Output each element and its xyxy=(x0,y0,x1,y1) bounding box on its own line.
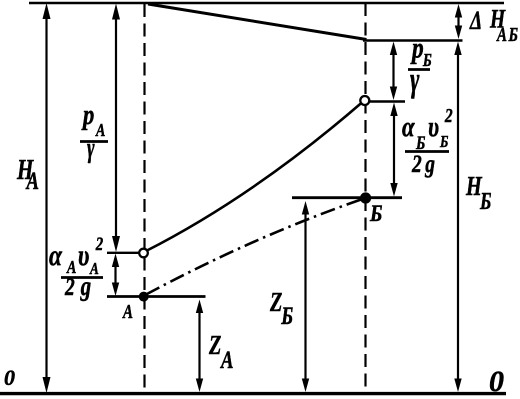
dashed section line A xyxy=(143,4,145,391)
svg-text:Б: Б xyxy=(280,301,293,329)
svg-text:0: 0 xyxy=(4,365,15,390)
energy line (sloping from section A to section B) xyxy=(148,4,367,40)
svg-text:g: g xyxy=(80,272,91,302)
label H_B xyxy=(465,172,491,214)
svg-text:2: 2 xyxy=(95,233,104,254)
svg-text:g: g xyxy=(424,150,435,178)
label alpha_A v_A^2 / 2g (fraction) xyxy=(49,233,104,301)
label A (point) xyxy=(122,300,133,323)
dimension line H_B xyxy=(454,42,461,393)
svg-text:2: 2 xyxy=(64,273,75,301)
node: piezometric point at section A (open circle) xyxy=(139,249,148,258)
datum line 0-0 xyxy=(0,392,506,395)
svg-text:A: A xyxy=(25,166,39,194)
piezometer tick at section A xyxy=(107,252,148,254)
svg-text:υ: υ xyxy=(428,110,439,142)
svg-text:Б: Б xyxy=(439,133,449,152)
dashed section line B xyxy=(364,3,366,391)
label p_B / gamma (fraction) xyxy=(408,31,432,100)
label B (point) xyxy=(369,201,382,227)
svg-text:γ: γ xyxy=(87,133,95,164)
svg-text:АБ: АБ xyxy=(496,23,519,46)
dimension line p_A/gamma xyxy=(112,4,120,253)
node: point A (filled dot) xyxy=(139,292,149,302)
svg-text:0: 0 xyxy=(489,365,504,398)
svg-text:A: A xyxy=(122,300,133,323)
energy level line at section B xyxy=(363,39,463,42)
svg-text:Б: Б xyxy=(422,52,432,71)
level line at point A xyxy=(107,295,206,298)
piezometer tick at section B xyxy=(369,100,405,102)
label p_A / gamma (fraction) xyxy=(80,98,108,164)
dimension line z_A xyxy=(196,300,203,393)
piezometric curve from A to B xyxy=(146,102,363,251)
pipe axis dash-dot line from A to B xyxy=(146,200,361,295)
svg-text:Z: Z xyxy=(269,288,282,317)
label H_A xyxy=(16,155,39,194)
label z_A xyxy=(208,331,233,373)
dimension arrows alpha_B v_B^2/2g xyxy=(390,103,397,197)
svg-text:A: A xyxy=(219,345,233,373)
svg-text:2: 2 xyxy=(411,150,422,178)
svg-text:υ: υ xyxy=(78,238,89,271)
svg-text:Б: Б xyxy=(369,201,382,227)
dimension line H_A xyxy=(43,3,51,393)
level line at point B xyxy=(292,196,402,199)
svg-text:A: A xyxy=(95,122,105,141)
label delta H_AB xyxy=(469,5,519,46)
svg-text:p: p xyxy=(410,31,423,64)
node: point B (filled dot) xyxy=(360,192,371,203)
svg-text:Δ: Δ xyxy=(469,6,482,34)
top reference line (initial energy level) xyxy=(29,2,504,5)
label alpha_B v_B^2 / 2g (fraction) xyxy=(402,104,453,177)
svg-text:α: α xyxy=(402,110,415,142)
label 0 (bottom left) xyxy=(4,365,15,390)
svg-text:Б: Б xyxy=(479,188,491,215)
dimension line p_B/gamma xyxy=(390,42,397,101)
svg-text:Z: Z xyxy=(208,331,221,360)
label 0 (bottom right) xyxy=(489,365,504,398)
svg-text:γ: γ xyxy=(410,61,420,99)
dimension line z_B xyxy=(302,201,309,392)
svg-text:α: α xyxy=(49,238,63,271)
dimension line delta H_AB xyxy=(455,4,462,39)
node: piezometric point at section B (open circle) xyxy=(360,96,369,105)
svg-text:2: 2 xyxy=(444,104,453,126)
label z_B xyxy=(269,288,293,329)
dimension arrows alpha_A v_A^2/2g xyxy=(112,254,119,297)
svg-text:p: p xyxy=(81,98,94,130)
